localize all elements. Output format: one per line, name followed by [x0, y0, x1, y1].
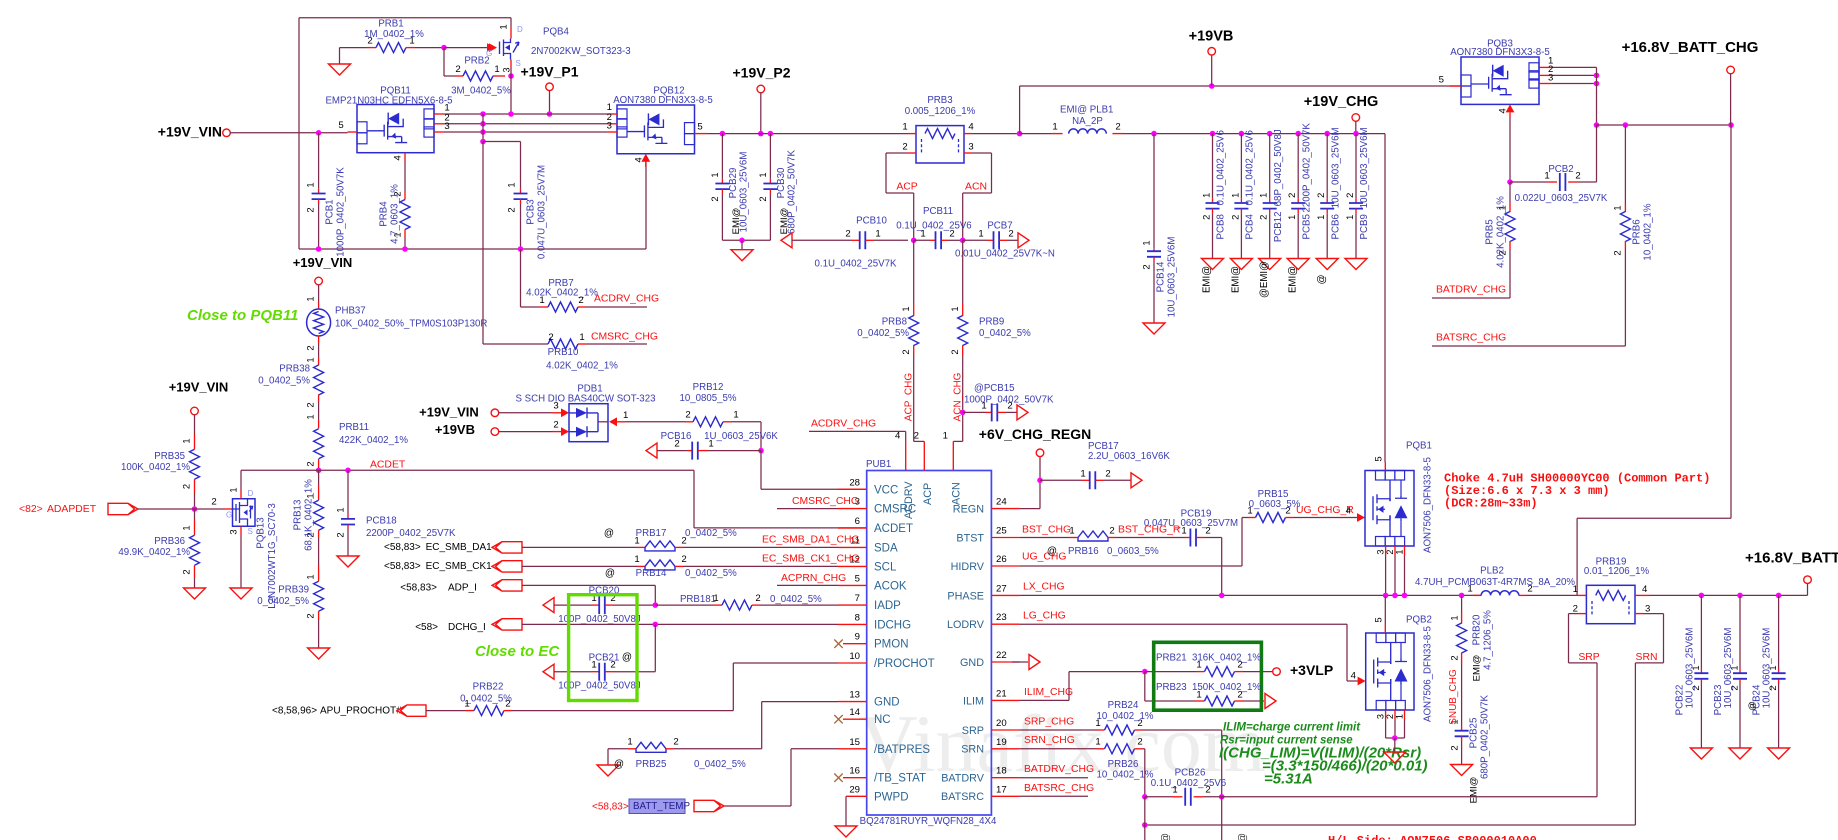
svg-text:BATDRV_CHG: BATDRV_CHG	[1024, 764, 1094, 775]
svg-text:1: 1	[304, 357, 315, 362]
svg-text:2: 2	[914, 431, 919, 442]
svg-text:1: 1	[1200, 193, 1211, 198]
svg-text:1: 1	[708, 439, 713, 450]
svg-text:1: 1	[709, 172, 720, 177]
svg-text:2: 2	[1448, 745, 1459, 750]
svg-text:PMON: PMON	[874, 639, 909, 651]
svg-text:2: 2	[1229, 215, 1240, 220]
svg-text:4.7_0603_1%: 4.7_0603_1%	[390, 184, 401, 244]
svg-text:0.022U_0603_25V7K: 0.022U_0603_25V7K	[1515, 193, 1608, 204]
svg-text:EMI@: EMI@	[1287, 266, 1298, 293]
svg-text:+19V_VIN: +19V_VIN	[419, 404, 479, 419]
svg-text:1: 1	[1344, 215, 1355, 220]
svg-text:2: 2	[304, 613, 315, 618]
svg-text:5: 5	[338, 120, 343, 131]
svg-text:GND: GND	[960, 657, 984, 669]
svg-text:1: 1	[304, 296, 315, 301]
svg-text:2N7002KW_SOT323-3: 2N7002KW_SOT323-3	[531, 46, 631, 57]
svg-text:1: 1	[1394, 549, 1404, 554]
svg-text:PRB8: PRB8	[882, 317, 907, 328]
svg-text:2: 2	[1007, 401, 1012, 412]
svg-text:0.047U_0603_25V7M: 0.047U_0603_25V7M	[1144, 518, 1238, 529]
svg-text:EMP21N03HC EDFN5X6-8-5: EMP21N03HC EDFN5X6-8-5	[325, 96, 452, 107]
svg-text:1: 1	[949, 306, 960, 311]
svg-text:<58,83>: <58,83>	[384, 542, 421, 553]
svg-text:LX_CHG: LX_CHG	[1023, 581, 1065, 592]
svg-text:4.02K_0402_1%: 4.02K_0402_1%	[526, 287, 598, 298]
svg-text:HIDRV: HIDRV	[951, 561, 985, 573]
svg-text:PCB18: PCB18	[366, 516, 397, 527]
svg-text:ACN: ACN	[950, 482, 962, 505]
svg-text:0.01U_0402_25V7K~N: 0.01U_0402_25V7K~N	[955, 249, 1055, 260]
svg-text:AON7506_DFN33-8-5: AON7506_DFN33-8-5	[1423, 457, 1434, 553]
svg-text:3: 3	[444, 121, 449, 132]
svg-text:+19VB: +19VB	[435, 422, 475, 437]
svg-text:PRB4: PRB4	[379, 201, 390, 227]
svg-text:1: 1	[920, 229, 925, 240]
svg-text:PCB3: PCB3	[526, 199, 537, 224]
svg-text:2: 2	[367, 36, 372, 47]
svg-text:/BATPRES: /BATPRES	[874, 744, 930, 756]
svg-text:4: 4	[393, 155, 404, 161]
svg-text:CMSRC_CHG: CMSRC_CHG	[591, 331, 658, 342]
svg-text:S SCH DIO BAS40CW SOT-323: S SCH DIO BAS40CW SOT-323	[516, 394, 656, 405]
svg-text:PCB11: PCB11	[923, 206, 953, 217]
svg-text:+19V_P1: +19V_P1	[521, 64, 579, 80]
svg-text:DCHG_I: DCHG_I	[448, 622, 486, 633]
svg-text:EMI@: EMI@	[1472, 655, 1483, 682]
svg-text:22: 22	[996, 650, 1007, 661]
svg-text:2: 2	[1237, 660, 1242, 671]
svg-text:0_0402_5%: 0_0402_5%	[979, 328, 1031, 339]
svg-text:AON7506_DFN33-8-5: AON7506_DFN33-8-5	[1423, 626, 1434, 722]
svg-text:0_0603_5%: 0_0603_5%	[1249, 499, 1301, 510]
svg-text:1: 1	[981, 401, 986, 412]
svg-text:VCC: VCC	[874, 484, 898, 496]
svg-text:2200P_0402_25V7K: 2200P_0402_25V7K	[366, 528, 456, 539]
svg-text:PQB4: PQB4	[543, 27, 569, 38]
svg-text:PCB10: PCB10	[856, 216, 887, 227]
svg-text:1: 1	[1052, 122, 1057, 133]
svg-text:2: 2	[1344, 193, 1355, 198]
svg-text:ACDRV_CHG: ACDRV_CHG	[594, 293, 659, 304]
svg-text:2: 2	[1385, 549, 1395, 554]
svg-text:2: 2	[211, 497, 216, 508]
svg-text:4: 4	[1351, 671, 1357, 682]
svg-text:ACP: ACP	[896, 181, 917, 192]
svg-text:422K_0402_1%: 422K_0402_1%	[339, 435, 408, 446]
svg-text:1: 1	[579, 332, 584, 343]
svg-text:0_0402_5%: 0_0402_5%	[685, 528, 737, 539]
svg-text:PRB36: PRB36	[154, 536, 185, 547]
svg-text:ACOK: ACOK	[874, 580, 907, 592]
svg-text:BATSRC: BATSRC	[941, 791, 984, 803]
svg-text:PCB29: PCB29	[728, 168, 739, 199]
svg-text:16: 16	[849, 766, 860, 777]
svg-text:@EMI@: @EMI@	[1259, 261, 1270, 298]
svg-text:4: 4	[1346, 506, 1352, 517]
svg-text:SRP: SRP	[1578, 652, 1599, 663]
svg-text:PRB26: PRB26	[1108, 759, 1139, 770]
svg-text:19: 19	[996, 737, 1007, 748]
svg-text:2: 2	[902, 142, 907, 153]
svg-text:10U_0603_25V6M: 10U_0603_25V6M	[1167, 237, 1178, 318]
svg-text:1: 1	[1140, 240, 1151, 245]
svg-text:PCB8: PCB8	[1216, 214, 1227, 239]
svg-text:PCB1: PCB1	[325, 199, 336, 224]
svg-text:2: 2	[1008, 229, 1013, 240]
svg-text:1: 1	[902, 122, 907, 133]
svg-text:1000P_0402_50V7K: 1000P_0402_50V7K	[336, 167, 347, 257]
svg-text:D: D	[248, 489, 254, 498]
svg-text:1: 1	[1611, 205, 1622, 210]
svg-text:PRB23: PRB23	[1156, 682, 1187, 693]
svg-text:100P_0402_50V8J: 100P_0402_50V8J	[558, 681, 641, 692]
svg-text:ILIM=charge current limit: ILIM=charge current limit	[1223, 722, 1361, 734]
svg-text:2: 2	[1315, 193, 1326, 198]
svg-text:2: 2	[1258, 215, 1269, 220]
svg-text:2: 2	[1237, 689, 1242, 700]
svg-text:UG_CHG: UG_CHG	[1022, 551, 1066, 562]
svg-text:100K_0402_1%: 100K_0402_1%	[121, 462, 190, 473]
svg-text:23: 23	[996, 612, 1007, 623]
svg-text:(DCR:28m~33m): (DCR:28m~33m)	[1444, 496, 1538, 510]
svg-text:PRB25: PRB25	[636, 759, 667, 770]
svg-text:20: 20	[996, 718, 1007, 729]
svg-text:18: 18	[996, 766, 1007, 777]
svg-text:25: 25	[996, 526, 1007, 537]
svg-text:2: 2	[674, 439, 679, 450]
svg-text:2: 2	[1286, 193, 1297, 198]
svg-text:3: 3	[1375, 714, 1385, 719]
svg-text:2: 2	[505, 699, 510, 710]
svg-text:1: 1	[634, 554, 639, 565]
svg-text:H/L Side: AON7506 SB000010A00: H/L Side: AON7506 SB000010A00	[1328, 834, 1537, 840]
svg-text:4: 4	[895, 431, 901, 442]
svg-text:IADP: IADP	[874, 600, 901, 612]
svg-text:PLB2: PLB2	[1480, 566, 1504, 577]
svg-text:AON7380 DFN3X3-8-5: AON7380 DFN3X3-8-5	[1450, 47, 1550, 58]
svg-text:6: 6	[855, 516, 860, 527]
svg-text:SRN: SRN	[1636, 652, 1658, 663]
svg-text:EMI@: EMI@	[731, 208, 742, 235]
svg-text:1: 1	[1573, 584, 1578, 595]
svg-text:BATDRV_CHG: BATDRV_CHG	[1436, 284, 1506, 295]
svg-text:EC_SMB_CK1: EC_SMB_CK1	[426, 561, 493, 572]
svg-text:EMI@: EMI@	[1469, 777, 1480, 804]
svg-text:0_0402_5%: 0_0402_5%	[685, 568, 737, 579]
svg-text:4.02K_0402_1%: 4.02K_0402_1%	[546, 361, 618, 372]
svg-text:PRB22: PRB22	[473, 682, 504, 693]
svg-text:68P_0402_50V8J: 68P_0402_50V8J	[1273, 129, 1284, 206]
svg-text:PCB4: PCB4	[1244, 214, 1255, 240]
svg-text:2: 2	[304, 461, 315, 466]
svg-text:0_0402_5%: 0_0402_5%	[770, 594, 822, 605]
svg-text:=5.31A: =5.31A	[1264, 770, 1313, 787]
svg-text:1: 1	[1080, 469, 1085, 480]
svg-text:ILIM_CHG: ILIM_CHG	[1024, 687, 1073, 698]
svg-text:PRB38: PRB38	[279, 364, 310, 375]
svg-text:1: 1	[539, 295, 544, 306]
svg-text:1: 1	[304, 182, 315, 187]
svg-text:2: 2	[1109, 526, 1114, 537]
svg-text:@: @	[614, 759, 624, 770]
svg-text:5: 5	[1439, 75, 1444, 86]
svg-text:PCB26: PCB26	[1175, 768, 1206, 779]
svg-text:PQB2: PQB2	[1406, 615, 1432, 626]
svg-text:CMSRC_CHG: CMSRC_CHG	[792, 496, 859, 507]
svg-text:PRB181: PRB181	[680, 594, 716, 605]
svg-text:D: D	[517, 25, 523, 34]
svg-text:1: 1	[733, 410, 738, 421]
svg-text:1M_0402_1%: 1M_0402_1%	[364, 29, 424, 40]
svg-text:BTST: BTST	[956, 532, 984, 544]
svg-text:4: 4	[634, 157, 645, 163]
svg-text:PRB21: PRB21	[1156, 653, 1187, 664]
svg-text:4: 4	[1642, 584, 1648, 595]
svg-text:10U_0603_25V6M: 10U_0603_25V6M	[1723, 628, 1734, 709]
svg-text:0.01_1206_1%: 0.01_1206_1%	[1584, 566, 1650, 577]
svg-text:NC: NC	[874, 714, 891, 726]
svg-text:7: 7	[855, 593, 860, 604]
svg-text:@: @	[1747, 701, 1758, 711]
svg-text:IDCHG: IDCHG	[874, 619, 911, 631]
svg-text:2: 2	[180, 569, 191, 574]
svg-text:2: 2	[755, 593, 760, 604]
svg-text:EC_SMB_DA1: EC_SMB_DA1	[426, 542, 493, 553]
svg-text:3: 3	[501, 67, 511, 72]
svg-text:2: 2	[180, 484, 191, 489]
svg-text:SNUB_CHG: SNUB_CHG	[1448, 669, 1459, 725]
svg-text:10U_0603_25V6M: 10U_0603_25V6M	[1684, 628, 1695, 709]
svg-text:+16.8V_BATT_CHG: +16.8V_BATT_CHG	[1745, 549, 1838, 566]
svg-text:3M_0402_5%: 3M_0402_5%	[451, 86, 511, 97]
svg-text:PWPD: PWPD	[874, 791, 909, 803]
svg-text:<58,83>: <58,83>	[400, 583, 437, 594]
svg-text:2: 2	[681, 554, 686, 565]
svg-text:10: 10	[849, 651, 860, 662]
svg-text:PRB12: PRB12	[693, 382, 724, 393]
svg-text:3: 3	[607, 121, 612, 132]
svg-text:2: 2	[1448, 655, 1459, 660]
svg-text:10_0805_5%: 10_0805_5%	[679, 393, 736, 404]
svg-text:316K_0402_1%: 316K_0402_1%	[1192, 653, 1261, 664]
svg-text:26: 26	[996, 554, 1007, 565]
svg-text:3: 3	[227, 529, 238, 534]
svg-text:+6V_CHG_REGN: +6V_CHG_REGN	[979, 426, 1091, 442]
svg-text:Close to EC: Close to EC	[475, 643, 560, 660]
svg-text:2: 2	[673, 737, 678, 748]
svg-text:2: 2	[900, 349, 911, 354]
svg-text:2: 2	[1115, 122, 1120, 133]
svg-text:/TB_STAT: /TB_STAT	[874, 773, 926, 785]
svg-text:0_0603_5%: 0_0603_5%	[1107, 546, 1159, 557]
svg-text:+19V_CHG: +19V_CHG	[1304, 94, 1379, 110]
svg-text:SRP: SRP	[962, 725, 984, 737]
svg-text:Close to PQB11: Close to PQB11	[187, 307, 298, 324]
svg-text:8: 8	[855, 612, 860, 623]
svg-text:2: 2	[1611, 250, 1622, 255]
svg-text:1: 1	[494, 64, 499, 75]
svg-text:10U_0603_25V6M: 10U_0603_25V6M	[1359, 127, 1370, 208]
svg-text:1: 1	[1196, 660, 1201, 671]
svg-text:BATT_TEMP: BATT_TEMP	[633, 801, 690, 812]
svg-text:0_0402_5%: 0_0402_5%	[857, 328, 909, 339]
svg-text:EC_SMB_CK1_CHG: EC_SMB_CK1_CHG	[762, 553, 860, 564]
svg-text:9: 9	[855, 632, 860, 643]
svg-text:+3VLP: +3VLP	[1290, 662, 1333, 678]
svg-text:1: 1	[978, 229, 983, 240]
svg-text:10_0402_1%: 10_0402_1%	[1096, 770, 1153, 781]
svg-text:4.02K_0402_1%: 4.02K_0402_1%	[1496, 196, 1507, 268]
svg-text:EMI@: EMI@	[1202, 266, 1213, 293]
svg-text:0.1U_0402_25V6: 0.1U_0402_25V6	[1244, 130, 1255, 205]
svg-text:GND: GND	[874, 697, 900, 709]
svg-text:<58>: <58>	[415, 622, 438, 633]
svg-text:ACN: ACN	[965, 181, 987, 192]
svg-text:2: 2	[685, 410, 690, 421]
svg-text:150K_0402_1%: 150K_0402_1%	[1192, 682, 1261, 693]
svg-text:EC_SMB_DA1_CHG: EC_SMB_DA1_CHG	[762, 534, 860, 545]
svg-text:SCL: SCL	[874, 561, 897, 573]
svg-text:<82>: <82>	[19, 504, 43, 515]
svg-text:ADP_I: ADP_I	[448, 583, 477, 594]
svg-text:<58,83>: <58,83>	[384, 561, 421, 572]
svg-text:PRB13: PRB13	[293, 500, 304, 531]
svg-text:1: 1	[409, 36, 414, 47]
svg-text:BATSRC_CHG: BATSRC_CHG	[1436, 332, 1506, 343]
svg-text:PUB1: PUB1	[866, 459, 891, 470]
svg-text:PHB37: PHB37	[335, 306, 366, 317]
svg-text:2: 2	[334, 532, 345, 537]
svg-text:PCB9: PCB9	[1359, 214, 1370, 239]
svg-text:2: 2	[1137, 737, 1142, 748]
svg-text:2: 2	[1140, 264, 1151, 269]
svg-text:2: 2	[1385, 714, 1395, 719]
svg-text:1: 1	[334, 507, 345, 512]
svg-text:1: 1	[180, 525, 191, 530]
svg-text:68.1K_0402_1%: 68.1K_0402_1%	[304, 479, 315, 551]
svg-text:PRB9: PRB9	[979, 317, 1004, 328]
svg-text:PCB5: PCB5	[1301, 214, 1312, 239]
svg-text:ACDRV_CHG: ACDRV_CHG	[811, 419, 876, 430]
svg-text:PRB20: PRB20	[1472, 614, 1483, 645]
svg-text:PCB14: PCB14	[1156, 261, 1167, 292]
svg-text:BQ24781RUYR_WQFN28_4X4: BQ24781RUYR_WQFN28_4X4	[860, 816, 997, 827]
svg-text:BATDRV: BATDRV	[941, 773, 985, 785]
svg-text:@: @	[605, 568, 615, 579]
svg-text:4: 4	[968, 122, 974, 133]
svg-text:+19V_VIN: +19V_VIN	[293, 255, 353, 270]
svg-text:2: 2	[553, 420, 558, 431]
svg-text:1: 1	[1229, 193, 1240, 198]
svg-text:0.1U_0402_25V7K: 0.1U_0402_25V7K	[815, 259, 897, 270]
svg-text:+19VB: +19VB	[1189, 28, 1234, 44]
svg-text:G: G	[226, 511, 232, 520]
svg-text:AON7380 DFN3X3-8-5: AON7380 DFN3X3-8-5	[613, 95, 713, 106]
svg-text:2: 2	[1200, 215, 1211, 220]
svg-text:27: 27	[996, 583, 1007, 594]
svg-text:2: 2	[1573, 604, 1578, 615]
svg-text:+19V_VIN: +19V_VIN	[169, 379, 229, 394]
svg-text:4.7_1206_5%: 4.7_1206_5%	[1483, 610, 1494, 670]
svg-text:1: 1	[1286, 215, 1297, 220]
svg-text:1: 1	[1181, 526, 1186, 537]
svg-text:+19V_VIN: +19V_VIN	[158, 124, 222, 140]
svg-text:2: 2	[709, 196, 720, 201]
svg-text:0_0402_5%: 0_0402_5%	[258, 376, 310, 387]
svg-text:1: 1	[304, 574, 315, 579]
svg-text:0_0402_5%: 0_0402_5%	[694, 759, 746, 770]
svg-text:2: 2	[1575, 171, 1580, 182]
svg-text:ADAPDET: ADAPDET	[47, 504, 97, 515]
svg-text:10_0402_1%: 10_0402_1%	[1643, 203, 1654, 260]
svg-text:1: 1	[464, 699, 469, 710]
svg-text:2: 2	[548, 332, 553, 343]
svg-text:0.1U_0402_25V6: 0.1U_0402_25V6	[1216, 130, 1227, 205]
svg-text:PCB6: PCB6	[1330, 214, 1341, 239]
svg-text:1: 1	[304, 414, 315, 419]
svg-text:2: 2	[681, 536, 686, 547]
svg-text:2.2U_0603_16V6K: 2.2U_0603_16V6K	[1088, 451, 1170, 462]
svg-text:ACP: ACP	[922, 483, 934, 505]
svg-text:1: 1	[180, 438, 191, 443]
svg-text:0.005_1206_1%: 0.005_1206_1%	[905, 106, 976, 117]
svg-text:SRN_CHG: SRN_CHG	[1024, 735, 1075, 746]
svg-text:EMI@: EMI@	[779, 208, 790, 235]
svg-text:1: 1	[1448, 615, 1459, 620]
svg-text:2: 2	[505, 207, 516, 212]
svg-text:<8,58,96>: <8,58,96>	[272, 706, 317, 717]
svg-text:PCB30: PCB30	[776, 167, 787, 198]
svg-text:1: 1	[1247, 506, 1252, 517]
svg-text:1: 1	[943, 431, 948, 442]
svg-text:2: 2	[304, 345, 315, 350]
svg-text:@: @	[1161, 833, 1172, 840]
svg-text:1: 1	[627, 737, 632, 748]
svg-text:1: 1	[1258, 193, 1269, 198]
svg-text:5: 5	[855, 573, 860, 584]
svg-text:PRB1: PRB1	[378, 19, 403, 30]
svg-text:1: 1	[499, 24, 510, 29]
svg-text:/PROCHOT: /PROCHOT	[874, 658, 935, 670]
svg-text:2: 2	[1205, 785, 1210, 796]
svg-text:1: 1	[1394, 714, 1404, 719]
svg-text:2: 2	[845, 229, 850, 240]
svg-text:BST_CHG: BST_CHG	[1022, 524, 1071, 535]
svg-text:1: 1	[1172, 785, 1177, 796]
svg-text:14: 14	[849, 707, 860, 718]
svg-text:2: 2	[455, 64, 460, 75]
svg-text:SDA: SDA	[874, 542, 898, 554]
svg-text:SRP_CHG: SRP_CHG	[1024, 716, 1074, 727]
svg-text:1: 1	[1095, 737, 1100, 748]
svg-text:1: 1	[1544, 171, 1549, 182]
svg-text:1: 1	[1315, 215, 1326, 220]
svg-text:1: 1	[505, 182, 516, 187]
svg-text:1: 1	[875, 229, 880, 240]
svg-text:@: @	[604, 528, 614, 539]
svg-text:1: 1	[227, 487, 238, 492]
svg-text:PRB35: PRB35	[154, 451, 185, 462]
svg-text:680P_0402_50V7K: 680P_0402_50V7K	[1480, 694, 1491, 779]
svg-text:0.1U_0402_25V6: 0.1U_0402_25V6	[1151, 778, 1226, 789]
svg-text:49.9K_0402_1%: 49.9K_0402_1%	[118, 547, 190, 558]
svg-text:2: 2	[1285, 506, 1290, 517]
svg-text:PQB13: PQB13	[256, 517, 267, 548]
svg-text:@: @	[622, 652, 632, 663]
svg-text:PRB24: PRB24	[1108, 700, 1139, 711]
